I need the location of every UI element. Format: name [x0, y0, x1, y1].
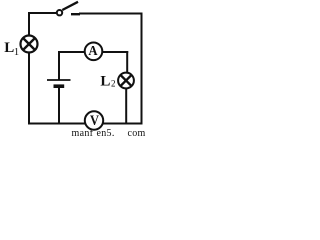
voltmeter V	[85, 111, 103, 129]
svg-text:V: V	[90, 113, 99, 129]
battery cell	[47, 80, 71, 86]
wire top left segment	[28, 12, 57, 14]
svg-text:L: L	[100, 74, 110, 90]
svg-text:com: com	[128, 128, 146, 137]
watermark	[72, 128, 146, 139]
svg-text:en5.: en5.	[97, 128, 115, 137]
wire inner right vertical lower (L2 to bottom)	[125, 86, 127, 125]
wire inner right vertical upper (corner to L2)	[126, 51, 128, 74]
wire battery branch upper	[58, 51, 60, 80]
wire right vertical	[141, 13, 143, 125]
svg-text:2: 2	[111, 79, 116, 89]
wire bottom	[28, 123, 143, 125]
switch S1	[57, 2, 80, 16]
wire battery branch lower	[58, 88, 60, 125]
lamp L1	[21, 36, 38, 53]
lamp L2	[118, 73, 134, 89]
svg-text:1: 1	[14, 47, 19, 58]
svg-text:L: L	[4, 40, 14, 56]
wire inner top (battery to A to corner)	[58, 51, 128, 53]
ammeter A	[85, 43, 103, 61]
wire top right segment	[79, 13, 143, 15]
svg-text:A: A	[88, 44, 98, 59]
wire left vertical	[28, 12, 30, 125]
